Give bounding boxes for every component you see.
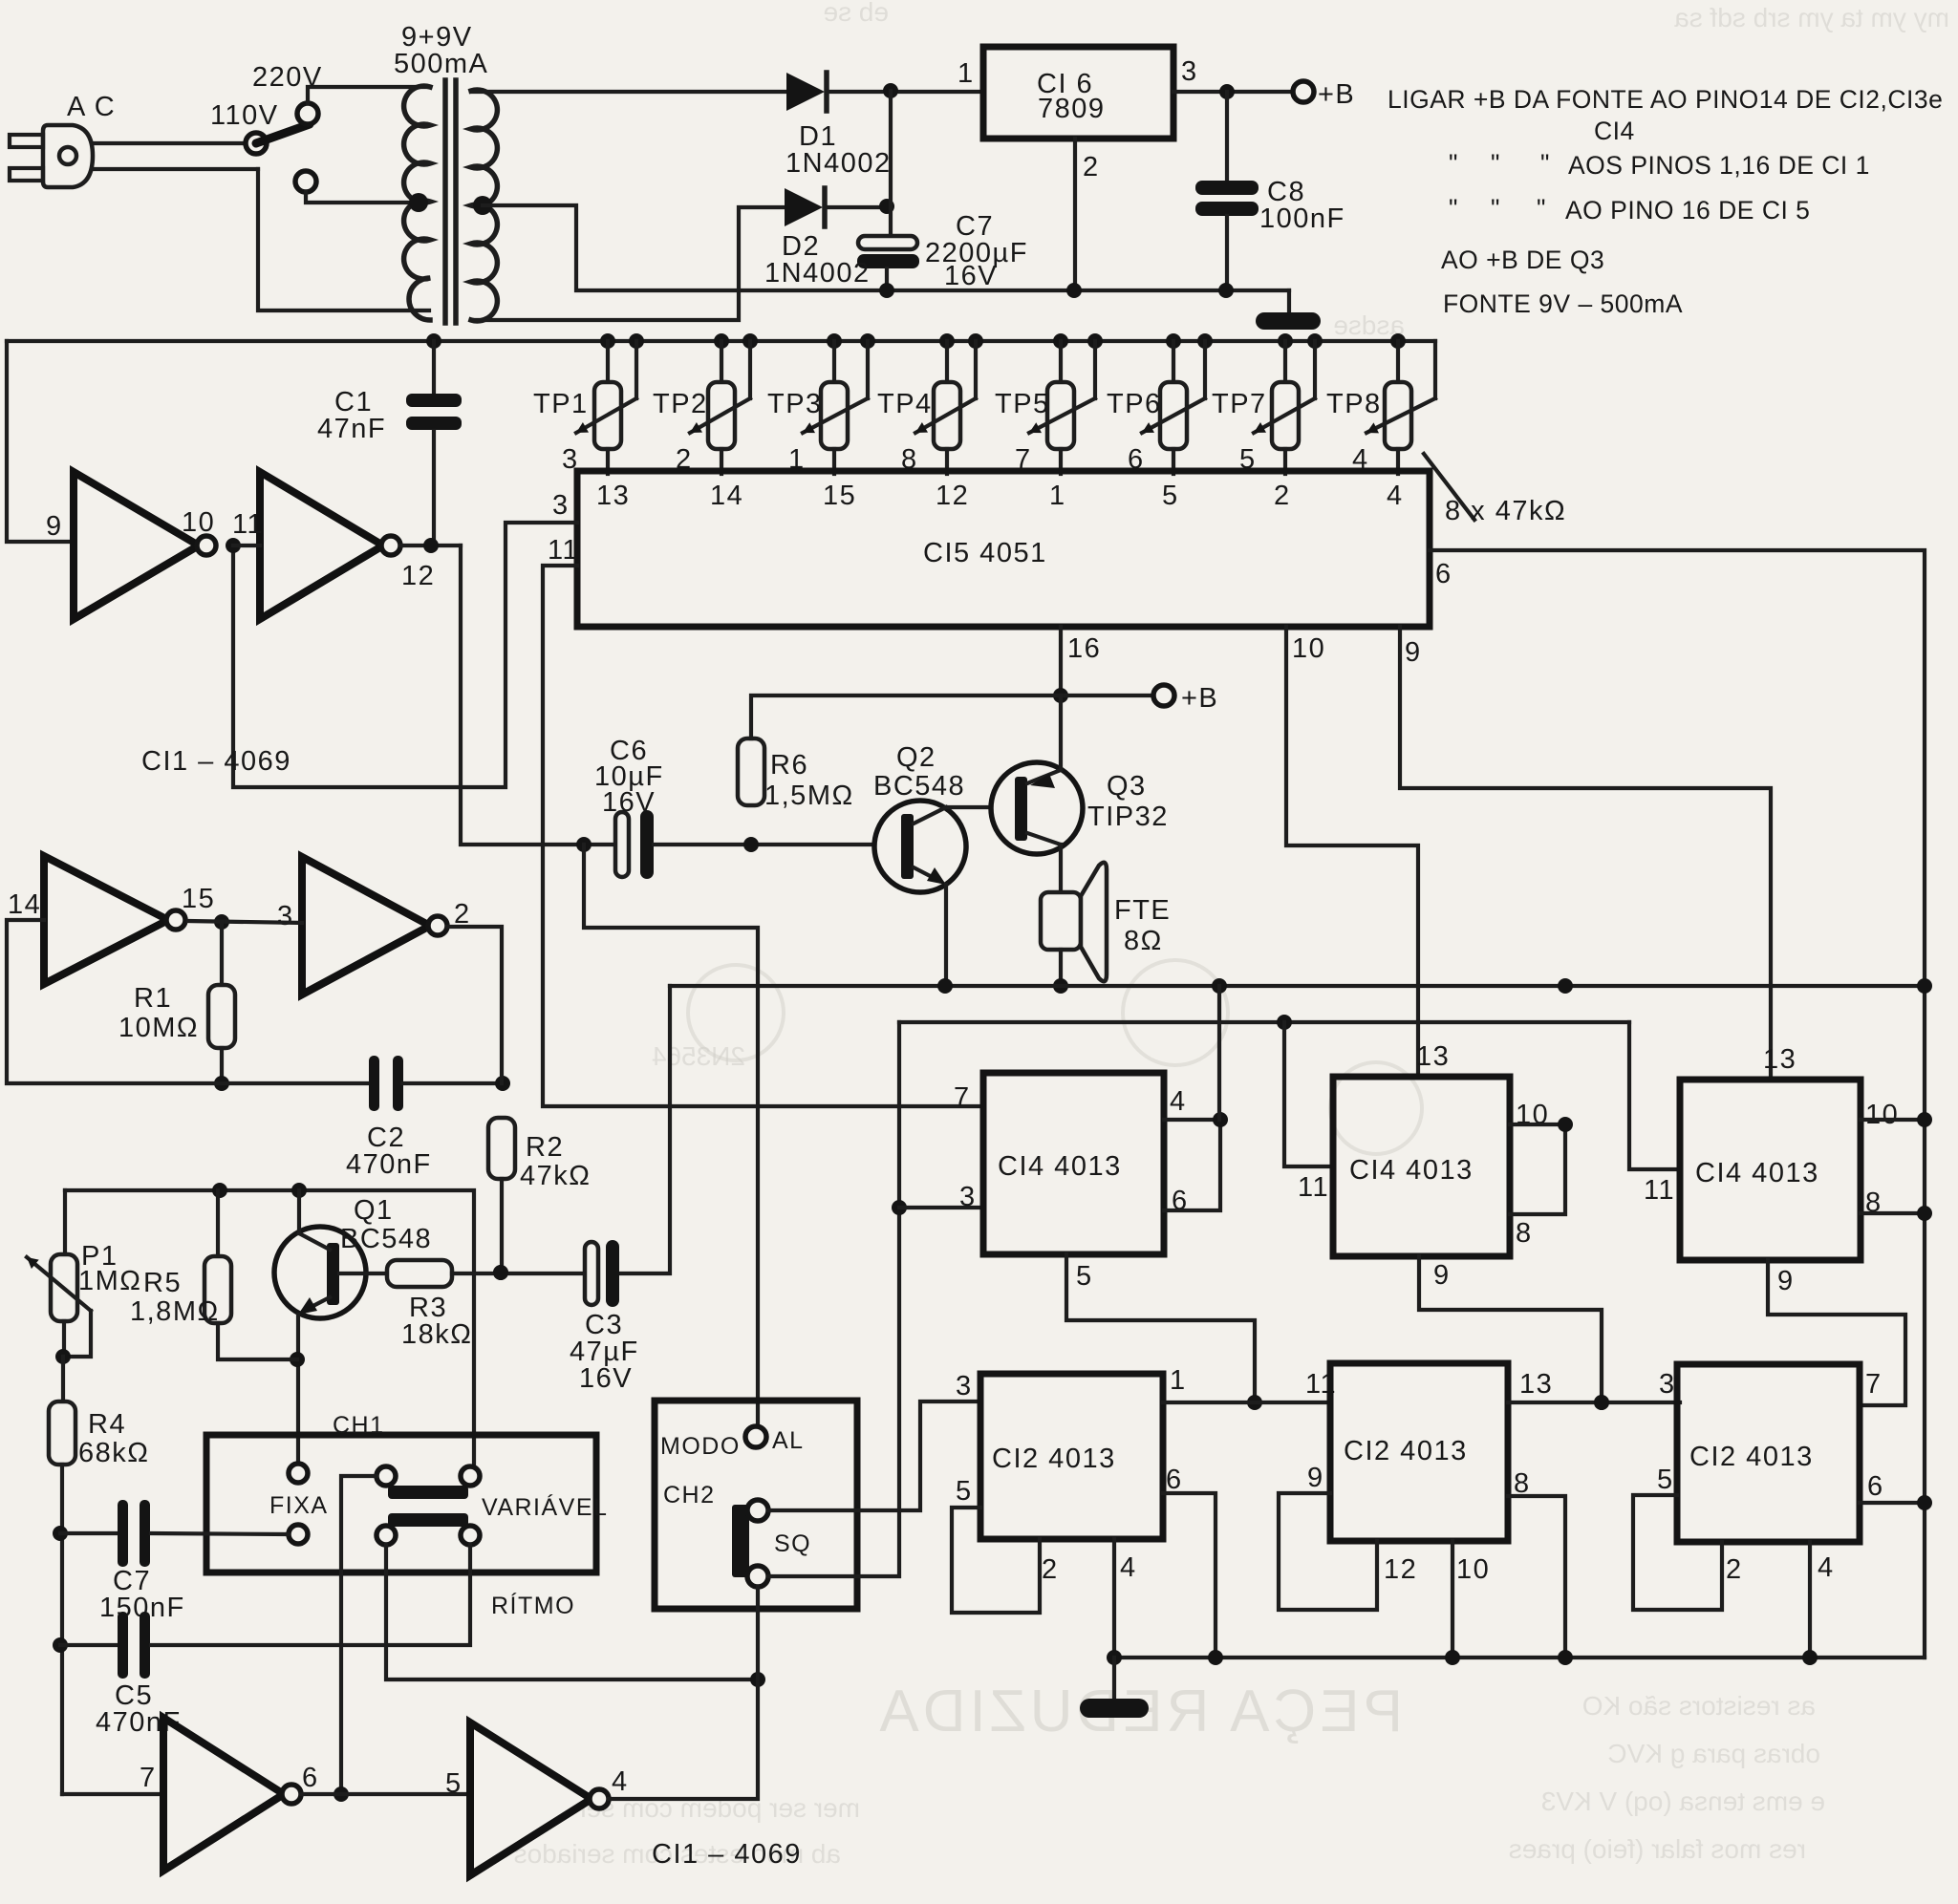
svg-text:": " — [1449, 149, 1458, 178]
svg-text:FTE: FTE — [1114, 895, 1171, 926]
svg-text:10: 10 — [1292, 633, 1325, 664]
svg-text:1MΩ: 1MΩ — [78, 1266, 141, 1296]
svg-text:4: 4 — [1120, 1552, 1137, 1583]
svg-text:FIXA: FIXA — [269, 1492, 329, 1519]
svg-text:9: 9 — [1777, 1266, 1795, 1296]
svg-text:1: 1 — [957, 58, 975, 89]
svg-text:Q3: Q3 — [1107, 771, 1147, 802]
svg-text:10: 10 — [182, 507, 215, 538]
svg-text:TP5: TP5 — [995, 389, 1050, 419]
svg-text:7: 7 — [1865, 1369, 1883, 1400]
svg-text:3: 3 — [1659, 1369, 1676, 1400]
svg-text:47nF: 47nF — [317, 414, 386, 444]
svg-text:14: 14 — [8, 889, 41, 920]
svg-text:R4: R4 — [88, 1409, 126, 1440]
svg-text:2: 2 — [1083, 152, 1100, 182]
svg-text:eb se: eb se — [824, 0, 890, 27]
svg-text:": " — [1491, 194, 1500, 223]
svg-text:": " — [1449, 194, 1458, 223]
svg-text:MODO: MODO — [660, 1433, 741, 1460]
svg-text:e ems tensa (oq) V KV3: e ems tensa (oq) V KV3 — [1541, 1786, 1825, 1816]
svg-text:RÍTMO: RÍTMO — [491, 1592, 575, 1619]
svg-text:8 x 47kΩ: 8 x 47kΩ — [1445, 496, 1566, 526]
svg-text:6: 6 — [1166, 1465, 1183, 1495]
svg-text:6: 6 — [1435, 559, 1452, 589]
svg-text:BC548: BC548 — [873, 771, 965, 802]
svg-text:TP6: TP6 — [1107, 389, 1162, 419]
svg-text:3: 3 — [277, 901, 294, 931]
svg-text:my ym ta ym srb sdf sa: my ym ta ym srb sdf sa — [1674, 3, 1949, 32]
svg-text:100nF: 100nF — [1259, 203, 1345, 234]
svg-text:13: 13 — [1519, 1369, 1553, 1400]
svg-text:3: 3 — [552, 490, 570, 521]
svg-text:8: 8 — [1516, 1218, 1533, 1249]
svg-text:16V: 16V — [944, 261, 998, 291]
svg-text:CI1 – 4069: CI1 – 4069 — [652, 1839, 802, 1870]
svg-text:7: 7 — [954, 1082, 971, 1113]
svg-text:1,8MΩ: 1,8MΩ — [130, 1296, 220, 1327]
svg-text:TP4: TP4 — [877, 389, 933, 419]
svg-text:9: 9 — [1405, 637, 1422, 668]
svg-text:6: 6 — [302, 1763, 319, 1793]
svg-text:3: 3 — [959, 1182, 977, 1212]
svg-text:3: 3 — [956, 1371, 973, 1401]
svg-text:1: 1 — [1049, 481, 1066, 511]
svg-text:5: 5 — [1076, 1261, 1093, 1292]
svg-text:12: 12 — [936, 481, 969, 511]
svg-text:Q2: Q2 — [896, 742, 936, 773]
svg-text:4: 4 — [612, 1766, 629, 1797]
svg-text:11: 11 — [1644, 1175, 1675, 1206]
svg-text:R6: R6 — [770, 750, 808, 781]
svg-text:5: 5 — [1162, 481, 1179, 511]
svg-text:CI2 4013: CI2 4013 — [1344, 1436, 1468, 1466]
svg-text:3: 3 — [1181, 56, 1198, 87]
svg-text:9: 9 — [1307, 1463, 1324, 1493]
svg-text:R1: R1 — [134, 983, 172, 1014]
svg-text:220V: 220V — [252, 62, 323, 93]
svg-text:10: 10 — [1456, 1554, 1490, 1585]
svg-text:7809: 7809 — [1038, 94, 1106, 124]
svg-text:10MΩ: 10MΩ — [118, 1013, 199, 1043]
svg-text:R5: R5 — [143, 1268, 182, 1298]
svg-text:SQ: SQ — [774, 1530, 811, 1557]
svg-text:FONTE 9V – 500mA: FONTE 9V – 500mA — [1443, 289, 1683, 318]
svg-text:AL: AL — [772, 1427, 805, 1454]
svg-text:1N4002: 1N4002 — [785, 148, 892, 179]
svg-text:TP7: TP7 — [1212, 389, 1267, 419]
svg-text:9: 9 — [46, 511, 63, 542]
svg-text:as resistors são KO: as resistors são KO — [1582, 1691, 1816, 1721]
svg-text:TP1: TP1 — [533, 389, 589, 419]
svg-text:BC548: BC548 — [340, 1224, 432, 1254]
svg-text:+B: +B — [1181, 683, 1218, 714]
svg-text:": " — [1537, 194, 1546, 223]
svg-text:13: 13 — [1763, 1044, 1797, 1075]
svg-text:16V: 16V — [602, 787, 656, 818]
svg-text:TP8: TP8 — [1326, 389, 1382, 419]
svg-text:1N4002: 1N4002 — [764, 258, 871, 289]
svg-text:5: 5 — [956, 1476, 973, 1507]
svg-text:13: 13 — [1416, 1041, 1450, 1072]
svg-text:CI2 4013: CI2 4013 — [992, 1444, 1116, 1474]
svg-text:CI4 4013: CI4 4013 — [1695, 1158, 1819, 1188]
svg-text:AO PINO 16 DE CI 5: AO PINO 16 DE CI 5 — [1565, 196, 1810, 225]
svg-text:res mos falar (feio) praes: res mos falar (feio) praes — [1509, 1834, 1806, 1864]
svg-text:4: 4 — [1170, 1086, 1187, 1117]
svg-text:15: 15 — [182, 884, 215, 914]
svg-text:68kΩ: 68kΩ — [78, 1438, 149, 1468]
svg-text:2: 2 — [1726, 1554, 1743, 1585]
svg-text:12: 12 — [1384, 1554, 1417, 1585]
svg-text:CI2 4013: CI2 4013 — [1689, 1442, 1814, 1472]
svg-text:18kΩ: 18kΩ — [401, 1319, 472, 1350]
svg-text:CI4: CI4 — [1594, 117, 1635, 145]
svg-text:LIGAR +B DA FONTE AO PINO14 DE: LIGAR +B DA FONTE AO PINO14 DE CI2,CI3e — [1388, 85, 1943, 114]
svg-text:6: 6 — [1867, 1471, 1884, 1502]
svg-text:CH1: CH1 — [333, 1412, 385, 1439]
svg-text:1,5MΩ: 1,5MΩ — [764, 781, 854, 811]
svg-text:AOS PINOS 1,16 DE CI 1: AOS PINOS 1,16 DE CI 1 — [1568, 151, 1870, 180]
svg-text:5: 5 — [445, 1768, 463, 1799]
svg-text:CH2: CH2 — [663, 1482, 716, 1508]
svg-text:TIP32: TIP32 — [1087, 802, 1169, 832]
svg-text:R2: R2 — [526, 1132, 564, 1163]
svg-text:10: 10 — [1865, 1100, 1899, 1130]
svg-text:2N3564: 2N3564 — [652, 1041, 745, 1071]
svg-text:8Ω: 8Ω — [1124, 926, 1163, 956]
svg-text:7: 7 — [140, 1763, 157, 1793]
svg-text:2: 2 — [1274, 481, 1291, 511]
svg-text:16V: 16V — [579, 1363, 633, 1394]
svg-text:500mA: 500mA — [394, 49, 488, 79]
svg-text:2: 2 — [1042, 1554, 1059, 1585]
svg-text:4: 4 — [1818, 1552, 1835, 1583]
svg-text:14: 14 — [710, 481, 743, 511]
svg-text:11: 11 — [232, 509, 264, 540]
svg-text:1: 1 — [1170, 1365, 1187, 1396]
svg-text:16: 16 — [1067, 633, 1101, 664]
svg-text:110V: 110V — [210, 100, 279, 131]
svg-text:12: 12 — [401, 561, 435, 591]
svg-text:+B: +B — [1318, 79, 1355, 110]
svg-text:11: 11 — [1298, 1172, 1329, 1203]
svg-text:11: 11 — [548, 535, 579, 566]
svg-text:VARIÁVEL: VARIÁVEL — [482, 1493, 608, 1521]
svg-text:obras para g KVC: obras para g KVC — [1607, 1739, 1820, 1768]
svg-text:A C: A C — [67, 92, 116, 122]
svg-text:4: 4 — [1387, 481, 1404, 511]
svg-text:Q1: Q1 — [354, 1195, 394, 1226]
svg-text:TP2: TP2 — [653, 389, 708, 419]
svg-text:15: 15 — [823, 481, 856, 511]
svg-text:9: 9 — [1433, 1260, 1451, 1291]
svg-text:CI4 4013: CI4 4013 — [1349, 1155, 1474, 1186]
svg-text:CI4 4013: CI4 4013 — [998, 1151, 1122, 1182]
svg-text:13: 13 — [596, 481, 630, 511]
svg-text:AO +B DE Q3: AO +B DE Q3 — [1441, 246, 1604, 274]
svg-text:470nF: 470nF — [346, 1149, 432, 1180]
svg-text:5: 5 — [1657, 1465, 1674, 1495]
svg-text:TP3: TP3 — [767, 389, 823, 419]
svg-text:": " — [1491, 149, 1500, 178]
svg-text:47kΩ: 47kΩ — [520, 1161, 591, 1191]
svg-text:": " — [1540, 149, 1550, 178]
svg-text:CI5 4051: CI5 4051 — [923, 538, 1047, 568]
svg-text:CI1 – 4069: CI1 – 4069 — [141, 746, 291, 777]
